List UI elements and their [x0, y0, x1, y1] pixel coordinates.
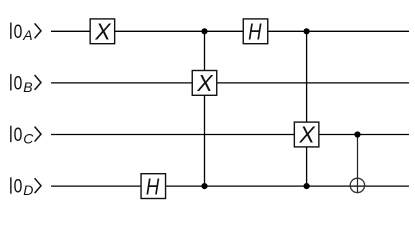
qubit label |0_D> [11, 177, 41, 198]
wire qubit C [51, 134, 409, 136]
gate H on qubit A [243, 19, 268, 45]
svg-text:A: A [22, 27, 32, 43]
svg-text:0: 0 [14, 177, 23, 198]
svg-text:0: 0 [14, 22, 23, 43]
svg-text:0: 0 [14, 125, 23, 146]
wire vertical connector column 5 (controls A,D to X on C) [306, 31, 308, 186]
wire qubit A [51, 30, 409, 32]
svg-text:H: H [146, 173, 160, 199]
svg-text:X: X [196, 70, 214, 96]
svg-text:B: B [23, 79, 32, 95]
control dot on A at column 5 [304, 28, 310, 34]
svg-text:X: X [94, 19, 112, 45]
gate X on qubit A [90, 19, 115, 45]
svg-text:D: D [23, 182, 33, 198]
gate H on qubit D [141, 173, 166, 199]
control dot on C at column 6 [354, 131, 360, 137]
control dot on A at column 3 [201, 28, 207, 34]
wire vertical connector column 3 (controls A,D to X on B) [204, 31, 206, 186]
wire qubit D [51, 185, 409, 187]
svg-text:0: 0 [14, 73, 23, 94]
qubit label |0_B> [11, 73, 41, 94]
CNOT XOR target circle on qubit D [350, 178, 364, 192]
svg-text:C: C [23, 130, 34, 146]
control dot on D at column 5 [304, 183, 310, 189]
gate X on qubit C (target of controls A,D) [294, 122, 319, 148]
wire qubit B [51, 82, 409, 84]
qubit label |0_C> [11, 125, 41, 146]
svg-text:X: X [298, 122, 316, 148]
svg-text:H: H [248, 19, 262, 45]
qubit label |0_A> [11, 22, 41, 43]
control dot on D at column 3 [201, 183, 207, 189]
wire vertical connector column 6 (control C to XOR target on D) [357, 135, 359, 194]
gate X on qubit B (target of controls A,D) [192, 70, 217, 96]
